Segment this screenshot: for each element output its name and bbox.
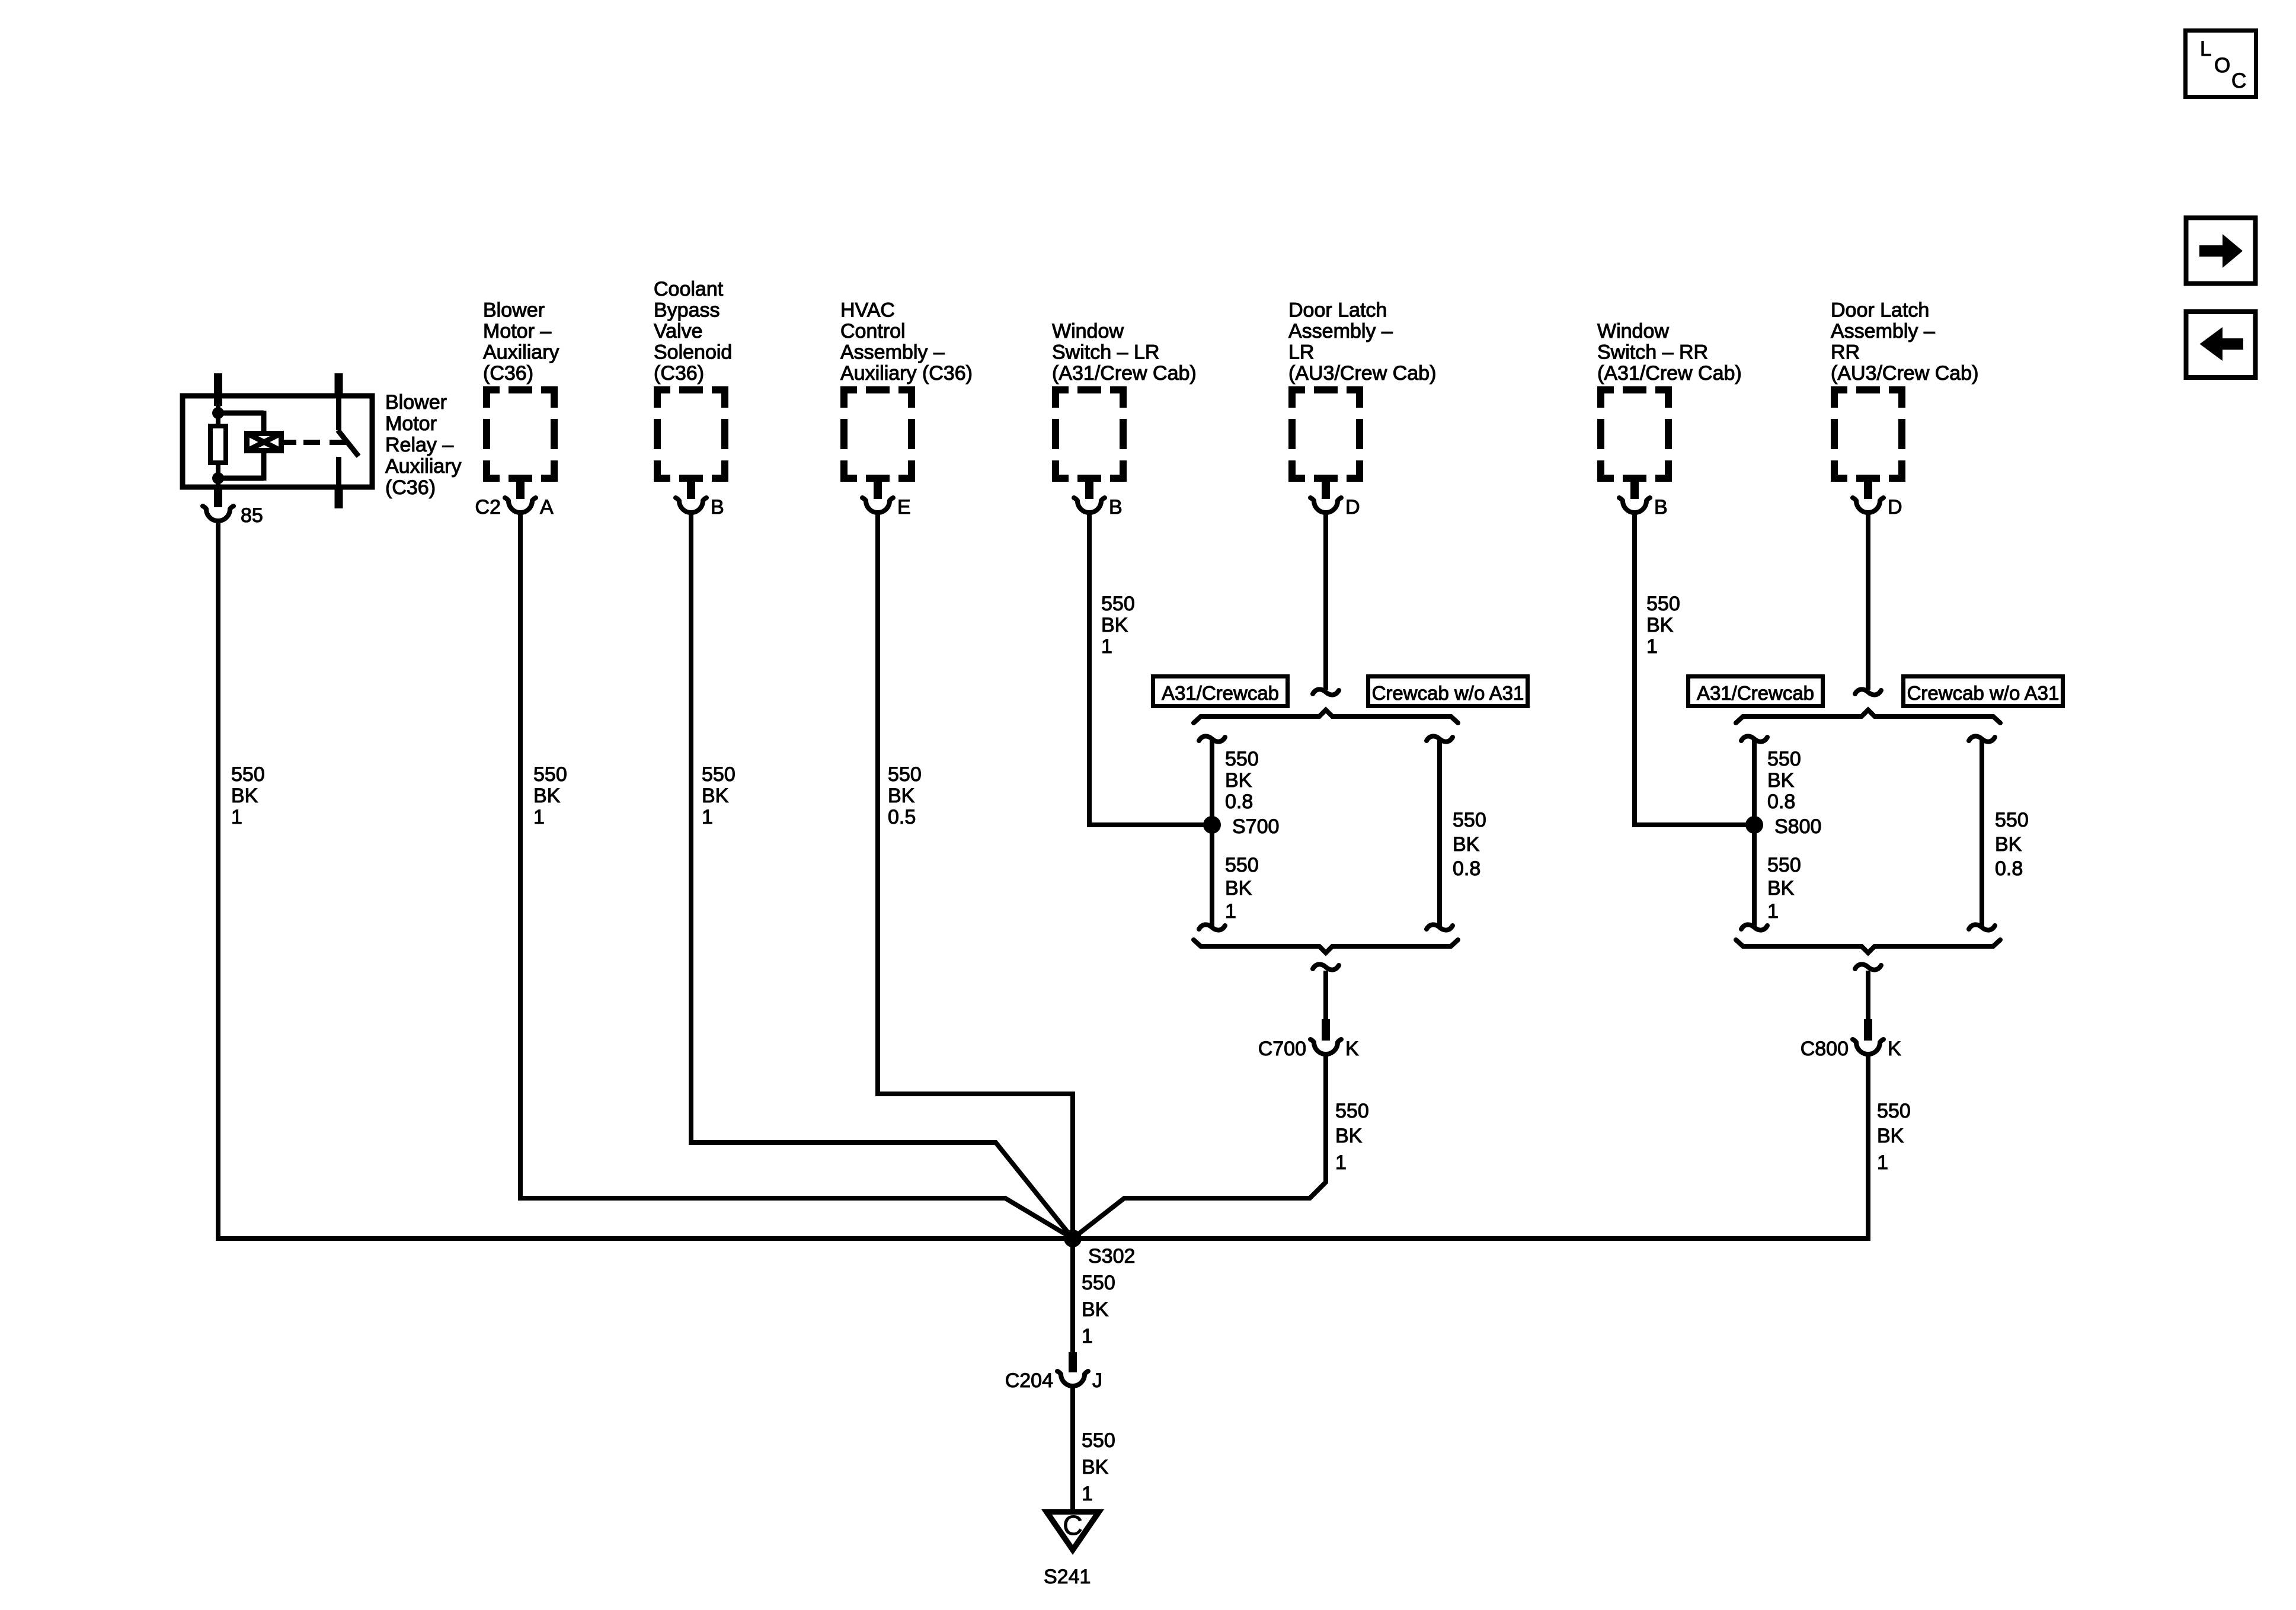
top option brace (S800 group) bbox=[1736, 710, 2000, 723]
svg-text:550: 550 bbox=[888, 763, 922, 786]
relay pin stub top-right bbox=[335, 373, 343, 398]
svg-text:(C36): (C36) bbox=[483, 362, 533, 385]
svg-text:(A31/Crew Cab): (A31/Crew Cab) bbox=[1597, 362, 1742, 385]
svg-text:RR: RR bbox=[1831, 341, 1860, 364]
svg-text:Window: Window bbox=[1052, 320, 1124, 343]
LOC legend box bbox=[2186, 31, 2256, 97]
wire from S800 group to C800 bbox=[1866, 971, 1870, 1020]
svg-text:O: O bbox=[2214, 54, 2230, 77]
relay box outline bbox=[183, 396, 372, 487]
svg-text:B: B bbox=[1654, 496, 1668, 518]
HVAC control assembly - auxiliary label bbox=[840, 299, 973, 385]
svg-text:0.8: 0.8 bbox=[1995, 857, 2023, 880]
connector pin B of coolant bypass valve solenoid bbox=[676, 478, 724, 518]
svg-text:BK: BK bbox=[1082, 1298, 1109, 1321]
svg-text:550: 550 bbox=[1225, 854, 1259, 876]
hook top of right option wire (S700) bbox=[1427, 736, 1453, 741]
right-arrow legend box bbox=[2186, 218, 2256, 284]
svg-text:550: 550 bbox=[1767, 854, 1801, 876]
A31/Crewcab option label box (S800 group) bbox=[1689, 677, 1823, 706]
svg-text:E: E bbox=[897, 496, 911, 518]
svg-text:C: C bbox=[2231, 69, 2246, 92]
splice dot S800 bbox=[1745, 816, 1763, 834]
Crewcab w/o A31 option label box (S700 group) bbox=[1368, 677, 1528, 706]
svg-text:(A31/Crew Cab): (A31/Crew Cab) bbox=[1052, 362, 1197, 385]
relay pin stub top-left bbox=[214, 373, 222, 406]
door latch assembly - RR label bbox=[1831, 299, 1978, 385]
hook top of right option wire (S800) bbox=[1969, 736, 1995, 741]
svg-text:(AU3/Crew Cab): (AU3/Crew Cab) bbox=[1831, 362, 1978, 385]
wire label 550 BK 1 (relay 85 wire) bbox=[231, 763, 265, 828]
wire label 550 BK 1 (C800 wire) bbox=[1877, 1100, 1911, 1174]
svg-text:550: 550 bbox=[1646, 593, 1680, 615]
relay resistor bbox=[210, 426, 226, 463]
svg-text:A: A bbox=[540, 496, 554, 518]
svg-text:550: 550 bbox=[1877, 1100, 1911, 1122]
hook bottom of right option wire (S800) bbox=[1969, 924, 1995, 930]
relay pin stub bottom-right bbox=[335, 485, 343, 508]
svg-text:550: 550 bbox=[231, 763, 265, 786]
hook bottom of left option wire (S800) bbox=[1741, 924, 1767, 930]
svg-text:Auxiliary: Auxiliary bbox=[483, 341, 559, 364]
connector C800 pin K bbox=[1801, 1019, 1901, 1060]
hook at end of door-latch wire (S800 group) bbox=[1855, 689, 1881, 694]
window switch - RR dashed box bbox=[1597, 386, 1672, 482]
window switch - LR dashed box bbox=[1052, 386, 1127, 482]
svg-text:550: 550 bbox=[702, 763, 736, 786]
svg-text:Motor: Motor bbox=[385, 412, 437, 435]
wire label 550 BK 0.8 right (S800) bbox=[1995, 809, 2029, 880]
wire from S700 group to C700 bbox=[1323, 971, 1328, 1020]
window switch - LR label bbox=[1052, 320, 1197, 385]
svg-text:C700: C700 bbox=[1258, 1038, 1306, 1060]
svg-text:Switch – LR: Switch – LR bbox=[1052, 341, 1159, 364]
svg-text:BK: BK bbox=[1225, 877, 1252, 900]
svg-text:Assembly –: Assembly – bbox=[1831, 320, 1935, 343]
svg-text:S302: S302 bbox=[1088, 1245, 1135, 1267]
wire: relay pin 85 to ground bus bbox=[216, 520, 220, 1241]
svg-text:1: 1 bbox=[1335, 1151, 1347, 1174]
connector C204 pin J bbox=[1005, 1352, 1102, 1392]
svg-text:Blower: Blower bbox=[483, 299, 545, 322]
wire label 550 BK 1 lower (S800) bbox=[1767, 854, 1801, 923]
svg-text:1: 1 bbox=[702, 806, 713, 828]
ground symbol triangle C bbox=[1041, 1509, 1104, 1555]
svg-text:(AU3/Crew Cab): (AU3/Crew Cab) bbox=[1288, 362, 1436, 385]
wire C204 to ground bbox=[1070, 1387, 1075, 1512]
wire label 550 BK 0.8 upper (S700) bbox=[1225, 748, 1259, 813]
svg-text:1: 1 bbox=[1101, 635, 1112, 658]
door latch assembly - RR dashed box bbox=[1831, 386, 1905, 482]
wire: door latch LR D down to option brace bbox=[1323, 512, 1328, 690]
svg-text:BK: BK bbox=[1767, 877, 1795, 900]
relay coil (box with X) bbox=[247, 433, 282, 451]
svg-text:BK: BK bbox=[231, 785, 258, 807]
wire label 550 BK 1 (blower motor wire) bbox=[533, 763, 567, 828]
svg-text:Motor –: Motor – bbox=[483, 320, 551, 343]
wire: HVAC control E to S302 bbox=[878, 512, 1073, 1238]
svg-text:Valve: Valve bbox=[654, 320, 703, 343]
wire C800 K to ground bus bbox=[1866, 1055, 1870, 1241]
right option wire (S800) bbox=[1980, 739, 1984, 927]
svg-text:0.8: 0.8 bbox=[1767, 790, 1795, 813]
svg-text:550: 550 bbox=[1101, 593, 1135, 615]
relay coil-to-switch dashed link bbox=[284, 440, 346, 445]
window switch - RR label bbox=[1597, 320, 1742, 385]
svg-text:550: 550 bbox=[1995, 809, 2029, 831]
svg-text:85: 85 bbox=[241, 504, 263, 527]
wire label 550 BK 0.8 right (S700) bbox=[1453, 809, 1486, 880]
connector pin D of door latch assembly - RR bbox=[1853, 478, 1902, 518]
svg-text:B: B bbox=[1109, 496, 1123, 518]
svg-text:S800: S800 bbox=[1774, 815, 1821, 838]
blower motor - auxiliary label bbox=[483, 299, 559, 385]
svg-text:D: D bbox=[1345, 496, 1360, 518]
svg-text:550: 550 bbox=[1082, 1429, 1115, 1452]
svg-text:BK: BK bbox=[1335, 1125, 1363, 1147]
svg-text:Auxiliary: Auxiliary bbox=[385, 455, 461, 478]
svg-text:0.5: 0.5 bbox=[888, 806, 916, 828]
svg-text:S241: S241 bbox=[1044, 1566, 1091, 1588]
wire label 550 BK 1 (window switch LR wire) bbox=[1101, 593, 1135, 658]
relay pin 85 connector bbox=[203, 487, 263, 527]
wire C700 K to S302 bbox=[1073, 1055, 1326, 1238]
coolant bypass valve solenoid label bbox=[654, 278, 732, 385]
svg-text:Switch – RR: Switch – RR bbox=[1597, 341, 1708, 364]
svg-text:1: 1 bbox=[1877, 1151, 1888, 1174]
wire label 550 BK 1 (C204-ground) bbox=[1082, 1429, 1115, 1505]
svg-text:LR: LR bbox=[1288, 341, 1314, 364]
svg-text:C2: C2 bbox=[475, 496, 501, 518]
svg-text:K: K bbox=[1888, 1038, 1901, 1060]
svg-text:C800: C800 bbox=[1801, 1038, 1849, 1060]
svg-text:Control: Control bbox=[840, 320, 906, 343]
svg-text:Crewcab w/o A31: Crewcab w/o A31 bbox=[1907, 682, 2060, 704]
wire label 550 BK 1 (S302-C204) bbox=[1082, 1272, 1115, 1347]
left option wire (S700) bbox=[1210, 739, 1214, 927]
hook top of left option wire (S800) bbox=[1741, 736, 1767, 741]
bottom option brace (S700 group) bbox=[1194, 940, 1458, 953]
wire: window switch LR B to S700 bbox=[1089, 512, 1212, 825]
svg-text:BK: BK bbox=[1453, 833, 1480, 856]
svg-text:550: 550 bbox=[1225, 748, 1259, 770]
svg-text:HVAC: HVAC bbox=[840, 299, 895, 322]
svg-text:S700: S700 bbox=[1232, 815, 1279, 838]
wire: blower motor A to S302 bbox=[520, 512, 1073, 1238]
splice S302 bbox=[1064, 1230, 1082, 1247]
relay coil branch wires bbox=[218, 406, 264, 487]
wire: door latch RR D down to option brace bbox=[1866, 512, 1870, 690]
svg-text:L: L bbox=[2200, 37, 2211, 60]
blower motor - auxiliary dashed box bbox=[483, 386, 558, 482]
right option wire (S700) bbox=[1437, 739, 1442, 927]
svg-text:B: B bbox=[711, 496, 724, 518]
svg-text:Bypass: Bypass bbox=[654, 299, 720, 322]
svg-text:BK: BK bbox=[1646, 614, 1674, 636]
ground bus wire bbox=[216, 1236, 1870, 1241]
relay switch bbox=[338, 396, 359, 487]
Crewcab w/o A31 option label box (S800 group) bbox=[1904, 677, 2063, 706]
wire label 550 BK 1 (C700 wire) bbox=[1335, 1100, 1369, 1174]
wire: window switch RR B to S800 bbox=[1635, 512, 1754, 825]
svg-text:C204: C204 bbox=[1005, 1369, 1053, 1392]
svg-text:BK: BK bbox=[533, 785, 561, 807]
hook bottom of left option wire (S700) bbox=[1199, 924, 1225, 930]
svg-text:1: 1 bbox=[231, 806, 242, 828]
hook bottom of right option wire (S700) bbox=[1427, 924, 1453, 930]
svg-text:J: J bbox=[1092, 1369, 1102, 1392]
svg-text:Door Latch: Door Latch bbox=[1288, 299, 1387, 322]
wire label 550 BK 1 (coolant bypass wire) bbox=[702, 763, 736, 828]
svg-text:550: 550 bbox=[533, 763, 567, 786]
relay pin stub bottom-left bbox=[214, 485, 222, 507]
splice dot S700 bbox=[1203, 816, 1221, 834]
svg-text:BK: BK bbox=[1225, 769, 1252, 792]
wire label 550 BK 1 lower (S700) bbox=[1225, 854, 1259, 923]
svg-text:550: 550 bbox=[1082, 1272, 1115, 1294]
svg-text:0.8: 0.8 bbox=[1225, 790, 1253, 813]
top option brace (S700 group) bbox=[1194, 710, 1458, 723]
wire label 550 BK 1 (window switch RR wire) bbox=[1646, 593, 1680, 658]
svg-text:1: 1 bbox=[1225, 900, 1236, 923]
junction dot relay bottom bbox=[212, 472, 224, 484]
hook below bottom brace (S700 group) bbox=[1313, 964, 1339, 969]
A31/Crewcab option label box (S700 group) bbox=[1153, 677, 1288, 706]
hook at end of door-latch wire (S700 group) bbox=[1313, 689, 1339, 694]
hook top of left option wire (S700) bbox=[1199, 736, 1225, 741]
left option wire (S800) bbox=[1752, 739, 1757, 927]
svg-text:Blower: Blower bbox=[385, 391, 447, 414]
svg-text:BK: BK bbox=[1082, 1456, 1109, 1478]
wire: coolant bypass valve B to S302 bbox=[691, 512, 1073, 1238]
svg-text:1: 1 bbox=[533, 806, 545, 828]
connector pin E of HVAC control assembly - auxiliary bbox=[862, 478, 911, 518]
svg-text:Coolant: Coolant bbox=[654, 278, 724, 300]
svg-text:Assembly –: Assembly – bbox=[840, 341, 945, 364]
svg-text:BK: BK bbox=[1101, 614, 1128, 636]
svg-text:550: 550 bbox=[1335, 1100, 1369, 1122]
svg-text:BK: BK bbox=[702, 785, 729, 807]
svg-text:Assembly –: Assembly – bbox=[1288, 320, 1393, 343]
svg-text:D: D bbox=[1888, 496, 1902, 518]
svg-text:K: K bbox=[1345, 1038, 1359, 1060]
door latch assembly - LR dashed box bbox=[1288, 386, 1363, 482]
connector pin B of window switch - RR bbox=[1619, 478, 1668, 518]
hook below bottom brace (S800 group) bbox=[1855, 964, 1881, 969]
junction dot relay top bbox=[212, 407, 224, 419]
svg-text:C: C bbox=[1063, 1510, 1082, 1541]
coolant bypass valve solenoid dashed box bbox=[654, 386, 728, 482]
svg-text:Solenoid: Solenoid bbox=[654, 341, 732, 364]
svg-text:Window: Window bbox=[1597, 320, 1669, 343]
connector pin B of window switch - LR bbox=[1074, 478, 1123, 518]
svg-text:BK: BK bbox=[1877, 1125, 1904, 1147]
wire label 550 BK 0.5 (HVAC wire) bbox=[888, 763, 922, 828]
wire label 550 BK 0.8 upper (S800) bbox=[1767, 748, 1801, 813]
connector pin D of door latch assembly - LR bbox=[1310, 478, 1360, 518]
svg-text:(C36): (C36) bbox=[654, 362, 704, 385]
svg-text:BK: BK bbox=[888, 785, 915, 807]
svg-text:A31/Crewcab: A31/Crewcab bbox=[1162, 682, 1279, 704]
connector C700 pin K bbox=[1258, 1019, 1359, 1060]
svg-text:A31/Crewcab: A31/Crewcab bbox=[1697, 682, 1814, 704]
svg-text:Auxiliary (C36): Auxiliary (C36) bbox=[840, 362, 973, 385]
svg-text:550: 550 bbox=[1767, 748, 1801, 770]
left-arrow legend box bbox=[2186, 312, 2256, 377]
svg-text:BK: BK bbox=[1995, 833, 2022, 856]
svg-text:1: 1 bbox=[1646, 635, 1658, 658]
wire S302 to C204 bbox=[1070, 1238, 1075, 1355]
svg-text:1: 1 bbox=[1082, 1325, 1093, 1347]
svg-text:Crewcab w/o A31: Crewcab w/o A31 bbox=[1372, 682, 1524, 704]
HVAC control assembly - auxiliary dashed box bbox=[840, 386, 915, 482]
bottom option brace (S800 group) bbox=[1736, 940, 2000, 953]
svg-text:550: 550 bbox=[1453, 809, 1486, 831]
connector pin A of blower motor - auxiliary bbox=[475, 478, 554, 518]
svg-text:1: 1 bbox=[1767, 900, 1779, 923]
blower motor relay - auxiliary (C36) label bbox=[385, 391, 461, 499]
svg-text:1: 1 bbox=[1082, 1483, 1093, 1505]
svg-text:Door Latch: Door Latch bbox=[1831, 299, 1929, 322]
svg-text:BK: BK bbox=[1767, 769, 1795, 792]
door latch assembly - LR label bbox=[1288, 299, 1436, 385]
svg-text:Relay –: Relay – bbox=[385, 434, 453, 456]
svg-text:(C36): (C36) bbox=[385, 476, 436, 499]
svg-text:0.8: 0.8 bbox=[1453, 857, 1480, 880]
